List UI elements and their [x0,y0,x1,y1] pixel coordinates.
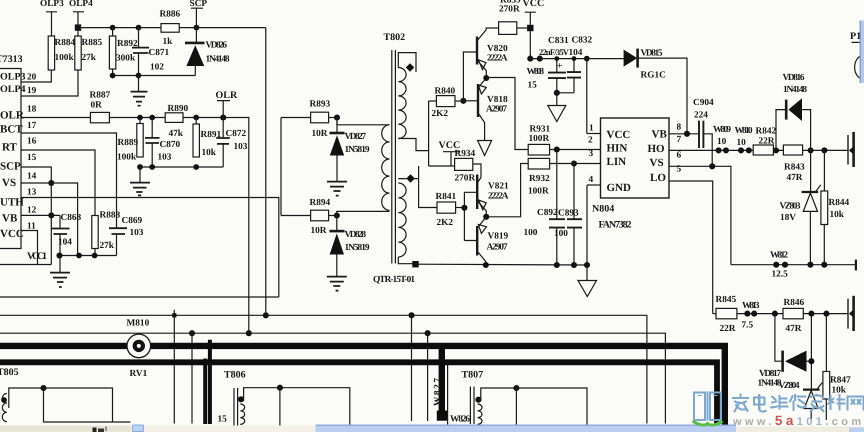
node V821/V819 base join [461,205,467,211]
svg-text:10k: 10k [202,148,217,158]
svg-text:22R: 22R [759,137,775,147]
svg-text:R843: R843 [784,163,805,173]
svg-text:2222A: 2222A [488,192,509,202]
wire T802 primary top lead [398,53,416,72]
svg-text:R841: R841 [436,192,457,202]
pin 11 [27,222,36,232]
transformer T802 QTR-15T-01 [373,32,415,285]
wire secondary ground rail [412,261,590,268]
svg-text:SCP: SCP [190,0,208,9]
svg-text:13: 13 [27,188,37,198]
svg-text:T805: T805 [0,367,19,378]
svg-text:OLP4: OLP4 [0,84,26,95]
svg-text:5: 5 [677,165,682,175]
capacitor C870 103 [145,118,181,168]
diode VD828 1N5819 [330,216,370,277]
svg-text:R889: R889 [118,138,139,148]
svg-text:M810: M810 [127,319,150,329]
jumper W813 7.5 [742,301,760,331]
pin 16 [27,137,37,147]
resistor R847 10k [823,314,851,420]
svg-text:VCC: VCC [523,0,545,9]
ground G2 [130,167,150,195]
resistor R839 270R [486,0,530,34]
svg-text:20: 20 [27,73,37,83]
capacitor C892 100 [524,150,566,266]
wire net to R894 [281,215,311,217]
wire LIN net [486,164,528,217]
svg-text:C832: C832 [572,36,593,46]
wire GND pin4 down [586,185,588,265]
wire R840/VCC branch vertical [428,101,430,166]
winding T802 aux [398,183,406,257]
ground arrow TRI1 [478,141,492,156]
diode VD817 1N4148 [758,314,812,389]
svg-text:R887: R887 [90,91,111,101]
svg-text:UTH: UTH [0,197,24,209]
node VD816 right leg [808,147,814,153]
resistor R894 10R [310,198,331,236]
svg-text:T7313: T7313 [0,54,23,65]
svg-text:103: 103 [234,142,248,152]
taskbar blue bar [316,425,737,432]
svg-text:7.5: 7.5 [742,321,754,331]
svg-text:R846: R846 [784,298,805,308]
wire sense tap x192 [189,330,195,423]
svg-text:10R: 10R [312,129,328,139]
svg-text:12: 12 [27,206,37,216]
svg-text:T806: T806 [224,370,246,381]
svg-text:R888: R888 [100,211,121,221]
resistor R845 22R [713,295,737,334]
svg-text:R884: R884 [55,38,76,48]
svg-text:R845: R845 [716,295,737,305]
svg-text:104: 104 [569,48,583,58]
svg-text:47k: 47k [169,129,184,139]
resistor R891 10k [193,118,222,159]
wire VS pin14 [21,183,78,257]
pin 8 [669,123,699,137]
wire R934 feed [429,165,455,167]
net label VCC1 [0,251,51,265]
bus heavy line A [0,346,725,427]
svg-text:GND: GND [607,182,632,194]
resistor R890 47k [165,104,188,139]
pin 6 VS line [669,151,731,265]
wire BCT pin17 [21,133,117,228]
node R847 top [823,311,829,317]
wire thin x447 [447,362,449,432]
connector P1 [850,31,861,79]
diode VD815 RG1C [584,49,666,81]
svg-text:VD826: VD826 [206,41,228,51]
svg-text:HIN: HIN [607,143,628,155]
capacitor C869 103 [109,216,144,256]
watermark site-name glyphs [733,395,864,412]
svg-text:www.5a101.com: www.5a101.com [732,413,864,428]
svg-text:OLP3: OLP3 [40,0,64,9]
watermark book icon [693,392,723,425]
capacitor C904 224 [693,98,714,166]
svg-text:V821: V821 [488,182,509,192]
node R891 top [193,115,199,121]
svg-text:V819: V819 [488,232,509,242]
pin 1 [587,124,601,134]
pin 4 [587,175,601,185]
svg-text:W810: W810 [735,126,753,136]
svg-text:OLR: OLR [0,110,25,122]
svg-text:V820: V820 [487,44,508,54]
wire T802 aux winding top lead [398,178,418,180]
node OLR vertical end [246,330,252,336]
svg-text:1: 1 [589,124,594,134]
svg-text:22R: 22R [720,324,736,334]
resistor R844 10k [821,150,850,264]
zener VZ803 18V [780,150,821,264]
svg-text:R840: R840 [435,87,456,97]
svg-text:10: 10 [717,137,727,147]
node V820/V818 emitter join [483,75,489,81]
ground G4 [327,182,347,196]
pin 2 [588,136,593,146]
svg-text:14: 14 [27,172,37,182]
svg-text:22uF/35V: 22uF/35V [539,47,570,57]
wire SCP vertical [265,28,267,316]
svg-text:V818: V818 [487,95,508,105]
node R893/VD827 [329,114,340,120]
wire net to R893 [281,117,311,119]
node SCP vertical end [263,312,269,318]
transistor V819 A2907 [477,217,508,265]
pin 18 [27,105,37,115]
taskbar blue icon [132,425,143,432]
wire T802 feedback winding top lead [337,118,390,125]
svg-text:VCC1: VCC1 [27,251,47,262]
svg-text:LO: LO [650,172,666,184]
wire sense tap x411 [408,312,414,421]
resistor R889 100k [117,118,143,163]
pin 13 [27,188,37,198]
wire HIN to pin2 [550,146,601,152]
svg-text:W809: W809 [713,125,731,135]
svg-text:104: 104 [58,238,72,248]
node SCP stem [194,25,200,31]
svg-text:VD816: VD816 [783,73,805,83]
pin 14 [27,172,37,182]
svg-text:100k: 100k [55,53,75,63]
svg-text:100: 100 [554,229,568,239]
capacitor C831 22uF/35V [539,36,570,93]
resistor R934 270R [455,149,482,184]
svg-text:4: 4 [589,175,594,185]
svg-text:R932: R932 [529,174,550,184]
svg-text:N804: N804 [592,204,614,215]
wire sense tap x427 [425,330,431,421]
svg-text:17: 17 [27,121,37,131]
svg-text:1N4148: 1N4148 [206,55,230,65]
wire bus line y315.3 [0,315,647,423]
svg-text:8: 8 [677,123,682,133]
svg-text:VZ803: VZ803 [780,202,801,212]
connector OLR [216,90,238,118]
svg-text:6: 6 [677,151,682,161]
svg-text:VB: VB [2,213,18,225]
svg-text:VB: VB [652,129,668,141]
svg-text:R842: R842 [756,127,777,137]
wire V820 base [463,52,476,101]
svg-text:VZ804: VZ804 [779,381,800,391]
IGBT gate symbol Q2 [848,296,854,331]
svg-text:7: 7 [677,135,682,145]
svg-text:VCC: VCC [0,228,24,240]
svg-text:10: 10 [737,138,747,148]
diode VD816 1N4148 [776,73,811,150]
connector OLP4 [69,0,93,36]
svg-text:P1: P1 [850,31,861,42]
resistor R846 47R [783,298,805,334]
resistor R887 0R [90,91,111,123]
pin 12 [27,206,37,216]
wire LIN to pin3 [550,160,601,166]
IGBT gate symbol Q1 [848,132,854,167]
capacitor C832 104 [567,36,593,93]
svg-text:OLP3: OLP3 [0,72,26,83]
diode VD826 1N4148 [185,28,230,76]
node R842/R843 [773,147,779,153]
svg-text:15: 15 [27,153,37,163]
wire VCC decouple rail y256.5 [56,252,116,258]
svg-text:C870: C870 [160,140,181,150]
svg-text:C871: C871 [149,48,170,58]
winding T802 primary [398,68,406,139]
node R892 top [110,25,116,31]
zener VZ804 [779,314,823,420]
pin 17 [27,121,37,131]
connector OLP3 [40,0,64,36]
svg-text:R894: R894 [310,198,331,208]
wire T802 feedback winding bottom lead [337,211,390,215]
pin 15 [27,153,37,163]
svg-text:A2907: A2907 [486,105,507,115]
svg-text:R890: R890 [168,104,189,114]
transistor V821 2222A [477,175,509,217]
node OLP4/rail junction [75,24,81,30]
svg-text:16: 16 [27,137,37,147]
svg-text:27k: 27k [82,53,97,63]
ground G3 [50,256,70,288]
bus heavy vertical W827 [433,346,447,421]
resistor R885 27k [75,36,103,70]
svg-text:1N4148: 1N4148 [783,85,807,95]
capacitor C871 102 [132,28,170,76]
node V820/V818 base join [460,98,466,104]
wire ground rail y75.5 [110,73,196,79]
svg-text:R886: R886 [160,10,181,20]
svg-text:15: 15 [218,415,228,425]
resistor R893 10R [310,100,331,140]
svg-text:C892: C892 [537,208,558,218]
wire W812 source rail [731,260,856,271]
node OLR stem [220,114,226,120]
svg-text:R844: R844 [829,198,850,208]
IC U801 T7313 controller [0,54,26,249]
wire VD815 to VB [638,58,687,134]
ground arrow TRI2 [548,106,566,122]
resistor R892 300k [109,28,138,76]
svg-text:LIN: LIN [607,156,627,168]
wire cap ground join [554,90,574,105]
svg-text:100R: 100R [528,187,549,197]
svg-text:270R: 270R [499,5,520,15]
svg-text:2222A: 2222A [487,54,508,64]
pin 19 [21,70,78,96]
svg-text:2K2: 2K2 [437,218,454,228]
jumper W809 10 [713,125,731,153]
taskbar right pale strip [736,426,864,432]
ground G1 [131,76,148,106]
svg-text:C904: C904 [693,98,714,108]
svg-text:QTR-15T-01: QTR-15T-01 [373,275,415,285]
wire lower rail y167 [137,164,223,170]
svg-text:RV1: RV1 [130,369,148,379]
svg-text:47R: 47R [787,173,803,183]
resistor R841 2K2 [436,192,465,228]
svg-text:RT: RT [2,142,18,154]
wire R893/R894 tie vertical [280,118,282,216]
svg-text:OLP4: OLP4 [69,0,93,9]
transistor V818 A2907 [463,78,508,140]
node V821/V819 emitter join [483,214,489,220]
svg-text:2K2: 2K2 [432,109,449,119]
watermark url text [732,413,864,428]
wire bus line y332.3 [0,333,665,423]
connector SCP [190,0,208,28]
svg-text:0R: 0R [91,101,103,111]
node VZ804 top [808,311,814,317]
svg-text:RG1C: RG1C [641,71,666,81]
resistor R884 100k [48,36,75,70]
svg-text:3: 3 [589,149,594,159]
resistor R840 2K2 [429,87,464,120]
svg-text:BCT: BCT [0,124,23,136]
resistor R931 100R [528,125,550,156]
wire sense tap x174 [172,310,176,424]
bus heavy line B [0,362,717,424]
svg-text:VS: VS [650,157,664,169]
ground arrow TRI3 [578,265,597,297]
svg-text:10k: 10k [830,210,845,220]
svg-text:100R: 100R [529,134,550,144]
svg-text:C872: C872 [226,129,247,139]
pin 3 [589,149,594,159]
scrollbar strip right [860,21,864,84]
wire VB pin12 long [21,198,279,298]
svg-text:T807: T807 [462,370,484,381]
wire T802 primary bottom lead [398,139,428,151]
svg-text:R885: R885 [82,38,103,48]
resistor R888 27k [92,211,121,256]
svg-text:W827: W827 [433,378,443,406]
svg-text:W808: W808 [527,67,545,77]
svg-text:100: 100 [524,228,538,238]
wire gate2 line [737,313,848,315]
svg-text:18: 18 [27,105,37,115]
IC N804 FAN7382 [592,118,669,231]
svg-text:12.5: 12.5 [772,270,789,280]
wire SCP/VS chain vertical [50,183,52,265]
svg-text:VD827: VD827 [345,132,367,142]
wire VCC to pin1 [586,59,588,134]
svg-text:100k: 100k [117,153,137,163]
svg-text:15: 15 [528,81,538,91]
jumper W810 10 [735,126,753,153]
svg-text:W813: W813 [742,301,760,311]
svg-text:19: 19 [27,86,37,96]
capacitor C868 104 [52,213,82,256]
transformer T805 [0,367,130,422]
wire RT pin16 [21,150,95,219]
svg-text:10R: 10R [311,226,327,236]
svg-text:1N5819: 1N5819 [345,243,370,253]
node VS/SCP join [48,180,54,186]
svg-text:47R: 47R [786,324,802,334]
svg-text:VS: VS [2,177,16,189]
svg-text:R893: R893 [310,100,331,110]
svg-text:C893: C893 [558,209,579,219]
svg-text:FAN7382: FAN7382 [599,220,632,231]
svg-text:+: + [557,62,562,72]
pin 5 LO line [669,165,713,314]
svg-text:R931: R931 [530,125,551,135]
svg-text:VD815: VD815 [641,49,663,59]
jumper W812 12.5 [770,251,788,280]
node R894/VD828 [329,212,340,218]
wire SCP pin15 [21,167,51,183]
wire VB pin12 [21,212,60,218]
resistor R842 22R [753,127,776,156]
node R844 top [821,147,827,153]
transformer T807 [450,370,587,432]
svg-text:SCP: SCP [0,161,21,173]
svg-text:270R: 270R [455,174,476,184]
svg-text:300k: 300k [116,54,136,64]
node C870 top [149,115,155,121]
jumper W808 15 [527,56,545,91]
wire T802 aux bottom lead [398,257,415,264]
svg-text:W812: W812 [770,251,788,261]
svg-text:1k: 1k [163,37,174,47]
pin 20 [21,70,51,83]
transistor V820 2222A [477,30,508,78]
svg-text:VD828: VD828 [345,230,367,240]
svg-text:1N5819: 1N5819 [345,145,370,155]
wire HIN net [486,78,528,150]
svg-text:T802: T802 [384,32,406,43]
node T802 aux polarity dot [406,174,414,182]
svg-text:18V: 18V [780,213,796,223]
wire SCP top rail [78,27,266,29]
svg-text:R934: R934 [455,149,476,159]
svg-text:HO: HO [648,143,666,155]
svg-text:OLR: OLR [216,90,238,101]
svg-text:27k: 27k [100,241,115,251]
resistor R843 47R [783,145,805,183]
svg-text:R847: R847 [830,376,851,386]
svg-text:2: 2 [588,136,593,146]
node VD817 top [772,311,778,317]
svg-text:103: 103 [130,228,144,238]
ground G5 [327,277,347,291]
